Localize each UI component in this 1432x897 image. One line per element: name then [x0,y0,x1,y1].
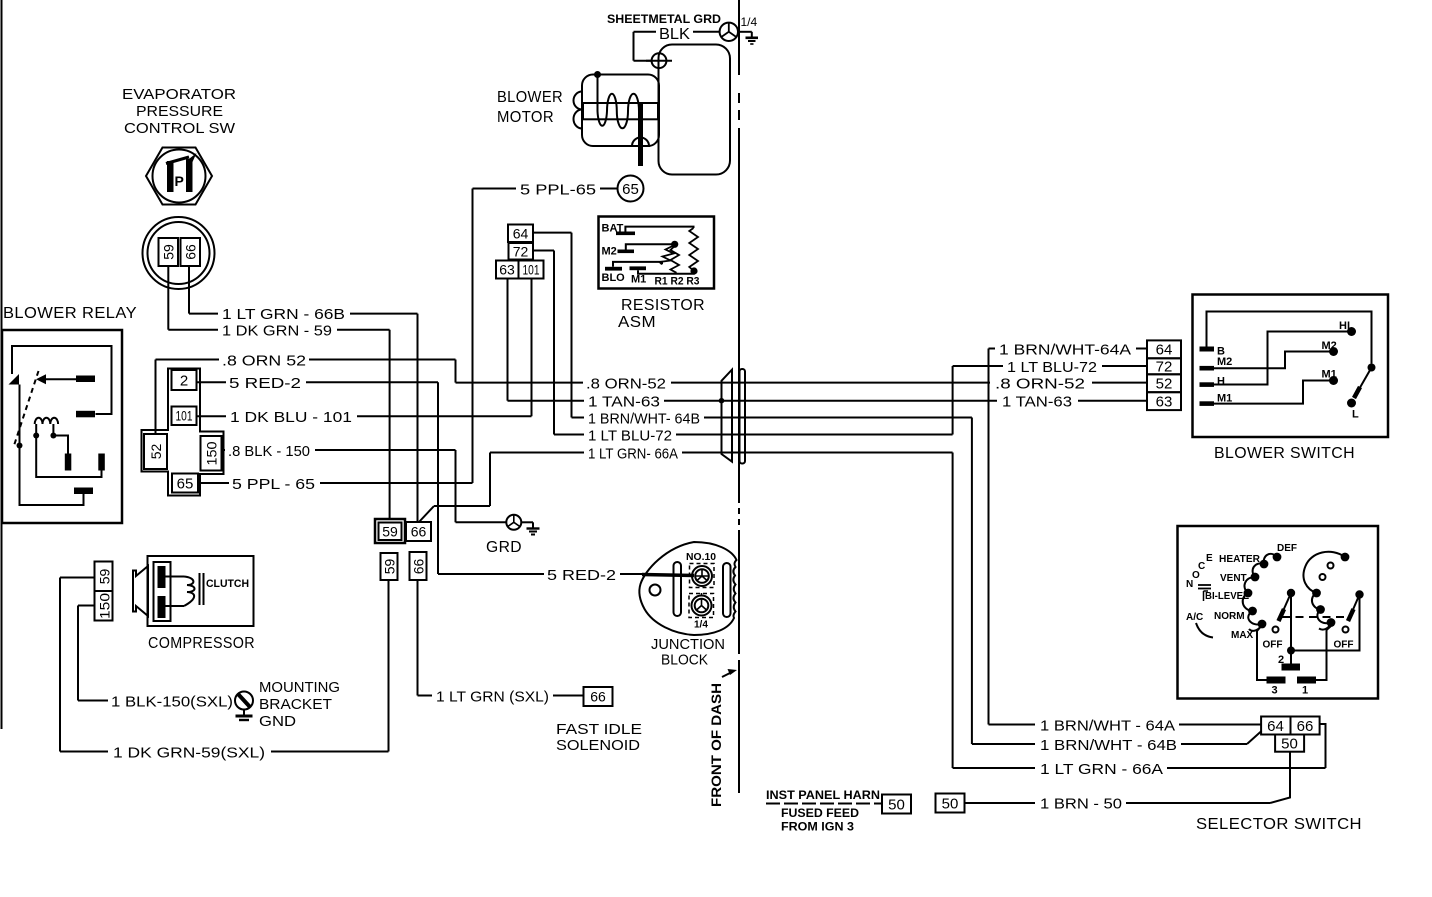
svg-text:CONTROL SW: CONTROL SW [124,120,236,137]
blower case [659,45,731,175]
svg-text:L: L [1352,409,1359,421]
wire .8 ORN-52 run to bulkhead [456,382,584,384]
svg-text:OFF: OFF [1263,640,1283,651]
svg-text:52: 52 [1156,376,1173,393]
selector right wiper arm [1334,590,1364,650]
connector 59 (single, to compressor harness) [381,553,398,580]
svg-text:R1 R2 R3: R1 R2 R3 [655,276,700,288]
wire 1 TAN-63 right side [745,400,997,402]
wire 1 LT GRN-66A to bulkhead [490,452,584,454]
wire 1 BRN/WHT-64B from cavity 64 [533,232,572,234]
svg-text:JUNCTION: JUNCTION [651,636,725,653]
connector pair 59 66 (relay harness) [375,519,431,543]
connector 50 fused feed [882,795,911,814]
svg-text:N: N [1186,579,1193,590]
wire 1 DK GRN-59 from pin 59 [167,266,169,330]
wire 1 LT GRN-66B from pin 66 [188,266,190,314]
blower switch SW1 box [1193,295,1389,438]
svg-text:50: 50 [1281,736,1298,753]
svg-text:HEATER: HEATER [1219,554,1261,565]
selector rotary contacts right [1303,552,1349,630]
wire 1 LT GRN-66A lower [953,767,1035,769]
pressure switch connector circle with pins 59 66 [143,217,215,289]
svg-text:MOUNTING: MOUNTING [259,679,340,696]
svg-text:1 BRN/WHT- 64B: 1 BRN/WHT- 64B [588,411,700,428]
svg-text:150: 150 [97,593,113,619]
mounting bracket ground symbol [235,692,253,721]
blower relay K1 box [2,330,122,523]
svg-text:66: 66 [183,244,199,260]
svg-text:SHEETMETAL GRD: SHEETMETAL GRD [607,12,721,26]
svg-text:1/4: 1/4 [741,15,758,29]
wire 1 BRN-50 [965,802,1036,804]
svg-text:1 DK GRN - 59: 1 DK GRN - 59 [222,323,332,340]
svg-text:1 BRN/WHT - 64A: 1 BRN/WHT - 64A [1040,718,1175,735]
svg-text:1 TAN-63: 1 TAN-63 [588,394,660,411]
svg-text:SELECTOR SWITCH: SELECTOR SWITCH [1196,816,1362,833]
svg-text:GRD: GRD [486,539,522,556]
resistor ASM R box [599,217,715,289]
wire link 66 to 66A [419,506,434,522]
svg-text:BRACKET: BRACKET [259,696,332,713]
svg-text:FRONT OF DASH: FRONT OF DASH [708,683,724,807]
wire 5 RED-2 into junction screw [642,575,694,576]
svg-text:.8 ORN-52: .8 ORN-52 [995,376,1085,393]
svg-text:PRESSURE: PRESSURE [136,103,223,120]
selector connector pair 64 66 [1261,717,1320,736]
selector common wiring to terminal 2 [1278,593,1360,671]
wire 1 BRN/WHT-64B right side [745,417,972,419]
wire .8 ORN 52 from cavity 52 [155,360,157,435]
compressor clutch assembly [133,556,254,626]
svg-text:5 PPL - 65: 5 PPL - 65 [232,476,315,493]
svg-text:5 RED-2: 5 RED-2 [547,567,616,584]
compressor connector 59/150 [95,562,113,621]
svg-text:101: 101 [523,262,540,278]
wire 1 BRN/WHT-64A lower [989,724,1036,726]
svg-text:BLOWER RELAY: BLOWER RELAY [3,305,137,322]
svg-text:FUSED FEED: FUSED FEED [781,806,859,820]
svg-text:SOLENOID: SOLENOID [556,737,640,754]
junction block [639,542,736,635]
svg-text:59: 59 [97,569,113,585]
svg-text:150: 150 [204,441,220,465]
resistor connector cavity 72 [509,243,534,260]
wire 1 BRN/WHT-64A upper [989,348,996,350]
wire BLK to sheetmetal ground [634,31,657,33]
svg-text:101: 101 [176,408,193,424]
svg-text:1 LT GRN (SXL): 1 LT GRN (SXL) [436,689,549,706]
svg-text:H: H [1217,376,1225,388]
svg-text:64: 64 [513,226,529,242]
svg-text:5 RED-2: 5 RED-2 [229,375,301,392]
svg-text:E: E [1206,553,1213,564]
svg-text:.8 ORN 52: .8 ORN 52 [222,353,306,370]
selector mechanical link dashed [1282,616,1352,618]
wire 1 LT BLU-72 right side [745,434,953,436]
bulkhead connector at dash [719,369,745,464]
front of dash line [738,0,740,793]
svg-text:BLOWER SWITCH: BLOWER SWITCH [1214,445,1355,462]
svg-text:M2: M2 [602,246,617,258]
wire .8 ORN-52 right side [745,382,990,384]
selector terminal 1 wiring [1316,626,1331,680]
svg-text:72: 72 [513,244,529,260]
svg-text:50: 50 [942,796,959,813]
svg-text:64: 64 [1156,342,1173,359]
connector 66 (single, to fast idle harness) [410,552,427,580]
blower motor M1 [574,71,660,166]
relay internal circuit [9,346,112,505]
svg-text:NO.10: NO.10 [686,552,716,563]
svg-text:72: 72 [1156,359,1173,376]
svg-text:64: 64 [1267,718,1284,735]
svg-text:59: 59 [161,244,177,260]
svg-text:59: 59 [382,524,398,540]
svg-text:1 LT GRN- 66A: 1 LT GRN- 66A [588,446,678,463]
svg-text:CLUTCH: CLUTCH [206,578,249,590]
leader arrow to dash line [722,672,733,678]
svg-text:2: 2 [180,373,188,390]
sheetmetal ground screw [720,23,738,41]
svg-text:MAX: MAX [1231,630,1254,641]
svg-text:1/4: 1/4 [694,620,708,631]
svg-text:BLO: BLO [602,272,626,284]
wire 1 DK BLU-101 from cavity 101 [197,415,227,417]
svg-text:66: 66 [411,524,427,540]
svg-text:66: 66 [411,559,427,575]
svg-text:65: 65 [177,476,194,493]
blower switch terminals [1200,346,1233,406]
svg-text:GND: GND [259,713,296,730]
resistor connector cavity 101 [519,261,544,279]
svg-text:INST PANEL HARN: INST PANEL HARN [766,788,880,802]
svg-text:ASM: ASM [618,314,656,331]
svg-text:1 LT BLU-72: 1 LT BLU-72 [588,428,672,445]
svg-text:1 LT BLU-72: 1 LT BLU-72 [1007,359,1097,376]
wire 1 LT BLU-72 from cavity 72 [533,250,554,252]
svg-text:66: 66 [1297,718,1314,735]
svg-text:FROM IGN 3: FROM IGN 3 [781,820,854,834]
svg-text:EVAPORATOR: EVAPORATOR [122,86,236,103]
svg-text:MOTOR: MOTOR [497,109,554,126]
svg-text:COMPRESSOR: COMPRESSOR [148,635,255,652]
connector cavity 150 [201,436,222,471]
svg-text:OFF: OFF [1334,640,1354,651]
page border left edge [1,0,3,729]
svg-text:63: 63 [499,262,515,278]
svg-text:1 BRN/WHT-64A: 1 BRN/WHT-64A [999,342,1131,359]
ground GRD screw [506,515,539,535]
selector rotary contacts left [1186,543,1297,641]
svg-text:BI-LEVEL: BI-LEVEL [1205,591,1249,602]
resistor connector cavity 63 [496,261,519,279]
pressure switch S1 hex body [146,148,212,205]
svg-text:NORM: NORM [1214,611,1245,622]
svg-text:1 BLK-150(SXL): 1 BLK-150(SXL) [111,694,233,711]
svg-text:59: 59 [382,559,398,575]
selector connector 50 [1275,735,1304,752]
svg-text:3: 3 [1272,685,1278,697]
svg-text:FAST IDLE: FAST IDLE [556,721,642,738]
relay connector block (cross) [142,369,224,496]
wire 1 DK GRN-59(SXL) [388,580,390,752]
selector switch SW2 box [1178,526,1379,699]
wire 5 RED-2 from cavity 2 [197,381,227,383]
quarter connector symbol on blower case [646,53,672,68]
svg-text:VENT: VENT [1220,573,1247,584]
wire 5 PPL-65 from cavity 65 [198,482,229,484]
ground symbol 1/4 top [738,32,758,44]
wire 1 LT GRN-66A right side [745,452,953,454]
connector cavity 2 [172,370,197,390]
node 65 circle [618,176,644,202]
svg-text:1: 1 [1302,685,1308,697]
connector cavity 101 [172,407,197,426]
svg-text:.8 ORN-52: .8 ORN-52 [586,376,666,393]
wire 1 BLK-150(SXL) [78,605,95,607]
selector left wiper arm [1263,589,1296,651]
svg-text:DEF: DEF [1277,543,1297,554]
wire 1 TAN-63 from cavity 63 [507,279,509,401]
wire .8 BLK-150 from cavity 150 [222,449,226,451]
connector cavity 52 [144,434,167,469]
svg-text:.8 BLK - 150: .8 BLK - 150 [228,443,310,460]
selector terminal 3 wiring [1257,625,1267,680]
svg-text:52: 52 [148,444,164,460]
label INST PANEL HARN / FUSED FEED / FROM IGN 3 [766,788,882,834]
svg-text:BLOWER: BLOWER [497,89,563,106]
label EVAPORATOR PRESSURE CONTROL SW [122,86,236,137]
blower switch internal wiring [1207,312,1376,421]
svg-text:M2: M2 [1217,356,1232,368]
svg-text:1 DK GRN-59(SXL): 1 DK GRN-59(SXL) [113,745,265,762]
svg-text:P: P [175,173,184,189]
svg-text:1 TAN-63: 1 TAN-63 [1002,394,1072,411]
svg-text:1 LT GRN - 66B: 1 LT GRN - 66B [222,306,345,323]
svg-text:50: 50 [888,797,905,814]
connector cavity 65 [172,474,198,493]
svg-text:1 LT GRN - 66A: 1 LT GRN - 66A [1040,761,1163,778]
svg-text:BLOCK: BLOCK [661,652,708,669]
svg-text:66: 66 [590,689,606,705]
svg-text:5 PPL-65: 5 PPL-65 [520,182,596,199]
svg-text:BLK: BLK [659,26,690,43]
connector 66 fast idle solenoid [584,687,613,706]
wire 1 BRN/WHT-64B lower [972,743,1035,745]
svg-text:RESISTOR: RESISTOR [621,297,705,314]
svg-text:A/C: A/C [1186,612,1203,623]
svg-text:1 DK BLU - 101: 1 DK BLU - 101 [230,409,352,426]
blower switch connector cavities 64 72 52 63 [1147,340,1181,410]
resistor connector cavity 64 [508,225,533,243]
svg-text:M1: M1 [631,274,646,286]
svg-text:65: 65 [622,181,639,198]
svg-text:1 BRN - 50: 1 BRN - 50 [1040,796,1122,813]
svg-text:1 BRN/WHT - 64B: 1 BRN/WHT - 64B [1040,737,1177,754]
connector 50 inst panel [936,794,965,813]
svg-text:63: 63 [1156,394,1173,411]
wire 1 LT GRN(SXL) fast idle [417,580,419,696]
